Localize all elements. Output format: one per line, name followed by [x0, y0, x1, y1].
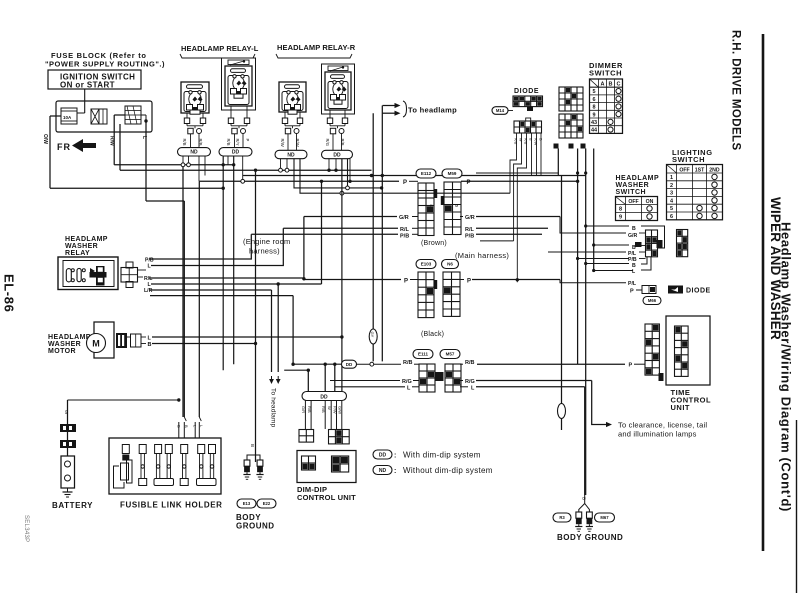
svg-text:ND: ND [190, 150, 198, 156]
svg-text:and illumination lamps: and illumination lamps [618, 430, 697, 439]
svg-text:M14: M14 [496, 108, 505, 113]
svg-text:(Brown): (Brown) [421, 240, 447, 247]
svg-text:(Black): (Black) [421, 331, 444, 338]
svg-text:R/B: R/B [307, 406, 312, 413]
svg-text:(Main harness): (Main harness) [455, 251, 509, 260]
svg-text:R/W: R/W [295, 139, 300, 147]
svg-text:BATTERY: BATTERY [52, 501, 93, 510]
svg-text::: : [394, 468, 397, 475]
svg-text:O/W: O/W [42, 134, 48, 144]
svg-text:FUSIBLE LINK HOLDER: FUSIBLE LINK HOLDER [120, 501, 223, 510]
svg-text:WASHER: WASHER [65, 243, 98, 250]
svg-text:B: B [582, 497, 587, 500]
svg-text:P: P [404, 279, 408, 285]
svg-text:R/B: R/B [340, 139, 345, 146]
svg-text:R/B: R/B [524, 138, 528, 145]
svg-text:DD: DD [346, 362, 353, 367]
svg-text:WASHER: WASHER [616, 182, 650, 189]
svg-text:DD: DD [379, 452, 387, 458]
svg-text:OFF: OFF [628, 199, 638, 205]
svg-text:P: P [403, 180, 407, 186]
svg-text:B: B [632, 226, 636, 232]
svg-text:E22: E22 [263, 501, 271, 506]
svg-text:R/Y: R/Y [235, 139, 240, 146]
svg-text:6: 6 [670, 214, 673, 220]
svg-text:SWITCH: SWITCH [616, 189, 647, 196]
svg-text:P/W: P/W [333, 406, 338, 414]
svg-text:ND: ND [379, 468, 387, 474]
svg-text:B: B [184, 425, 189, 428]
svg-text:C: C [617, 82, 621, 88]
svg-text:1: 1 [670, 175, 673, 181]
svg-text:ND: ND [287, 152, 295, 158]
svg-text:EL-86: EL-86 [2, 274, 17, 312]
svg-text:With dim-dip system: With dim-dip system [403, 451, 481, 460]
svg-text:CONTROL UNIT: CONTROL UNIT [297, 493, 356, 502]
svg-text:(Engine room: (Engine room [243, 237, 290, 246]
svg-text:MOTOR: MOTOR [48, 348, 76, 355]
svg-text:G/R: G/R [301, 406, 306, 413]
svg-text:DIODE: DIODE [514, 88, 539, 95]
svg-text:GY: GY [370, 332, 375, 338]
svg-text:To headlamp: To headlamp [408, 106, 457, 115]
svg-text:"POWER SUPPLY ROUTING".): "POWER SUPPLY ROUTING".) [45, 60, 165, 69]
svg-text:R/B: R/B [465, 360, 475, 366]
svg-text:R3: R3 [559, 515, 565, 520]
svg-text::: : [394, 453, 397, 460]
svg-text:UNIT: UNIT [671, 403, 691, 412]
svg-text:8: 8 [619, 207, 622, 213]
svg-text:W: W [327, 406, 332, 410]
svg-text:M57: M57 [446, 352, 455, 357]
svg-text:R/B: R/B [226, 139, 231, 146]
svg-text:43: 43 [591, 120, 597, 126]
svg-text:P/B: P/B [465, 234, 474, 240]
svg-text:R/G: R/G [325, 139, 330, 146]
svg-text:SEL343P: SEL343P [23, 515, 29, 542]
svg-text:G/R: G/R [399, 215, 409, 221]
svg-text:P/L: P/L [628, 281, 637, 287]
svg-text:R/W: R/W [280, 139, 285, 147]
svg-text:DD: DD [232, 150, 240, 156]
svg-text:R/L: R/L [400, 227, 410, 233]
svg-text:To headlamp: To headlamp [270, 388, 277, 428]
svg-text:R/G: R/G [465, 379, 475, 385]
svg-text:SWITCH: SWITCH [589, 69, 622, 78]
svg-text:ON: ON [646, 199, 654, 205]
svg-text:E111: E111 [418, 352, 429, 357]
svg-text:M66: M66 [648, 298, 657, 303]
svg-text:M59: M59 [448, 171, 457, 176]
svg-text:2ND: 2ND [709, 167, 720, 173]
svg-text:M: M [455, 203, 458, 208]
svg-text:P: P [630, 289, 634, 295]
svg-text:9: 9 [619, 215, 622, 221]
svg-text:R/B: R/B [182, 139, 187, 146]
svg-text:GROUND: GROUND [236, 522, 275, 531]
svg-text:HEADLAMP: HEADLAMP [65, 236, 108, 243]
svg-text:HEADLAMP: HEADLAMP [616, 175, 660, 182]
svg-text:WASHER: WASHER [48, 341, 81, 348]
svg-text:1ST: 1ST [695, 167, 705, 173]
svg-text:M67: M67 [600, 515, 609, 520]
svg-text:HEADLAMP RELAY-L: HEADLAMP RELAY-L [181, 44, 259, 53]
svg-text:2: 2 [670, 183, 673, 189]
svg-text:P: P [629, 363, 633, 369]
svg-text:DIODE: DIODE [686, 288, 711, 295]
svg-text:E: E [430, 203, 433, 208]
svg-text:OFF: OFF [679, 167, 689, 173]
svg-text:To clearance, license, tail: To clearance, license, tail [618, 421, 707, 430]
svg-text:P: P [245, 139, 250, 142]
svg-text:3: 3 [670, 191, 673, 197]
svg-text:W: W [519, 138, 523, 142]
svg-text:RELAY: RELAY [65, 250, 90, 257]
svg-text:G/R: G/R [628, 233, 637, 239]
svg-text:B: B [609, 82, 613, 88]
svg-text:DD: DD [333, 152, 341, 158]
svg-text:ON or START: ON or START [60, 81, 115, 90]
svg-text:9: 9 [592, 112, 595, 118]
svg-text:8: 8 [592, 105, 595, 111]
svg-text:A: A [601, 82, 605, 88]
svg-text:P: P [467, 279, 471, 285]
svg-text:L/R: L/R [144, 288, 153, 294]
svg-text:G/R: G/R [465, 215, 475, 221]
svg-text:E112: E112 [421, 171, 432, 176]
svg-text:FR: FR [57, 142, 71, 152]
svg-text:R/W: R/W [534, 138, 538, 146]
svg-text:R/G: R/G [402, 379, 412, 385]
svg-text:Without dim-dip system: Without dim-dip system [403, 466, 493, 475]
svg-text:R/B: R/B [321, 406, 326, 413]
svg-text:HEADLAMP: HEADLAMP [48, 334, 91, 341]
svg-text:E103: E103 [421, 262, 432, 267]
svg-text:5: 5 [592, 89, 595, 95]
svg-text:HEADLAMP RELAY-R: HEADLAMP RELAY-R [277, 43, 356, 52]
svg-text:R/L: R/L [465, 227, 475, 233]
svg-text:P: P [467, 180, 471, 186]
svg-text:B: B [250, 444, 255, 447]
svg-text:10A: 10A [63, 115, 72, 120]
svg-text:N6: N6 [447, 262, 453, 267]
svg-text:B: B [176, 425, 181, 428]
svg-text:M: M [92, 339, 100, 349]
svg-text:P/B: P/B [400, 234, 409, 240]
svg-text:R.H. DRIVE MODELS: R.H. DRIVE MODELS [730, 30, 742, 151]
svg-text:BODY GROUND: BODY GROUND [557, 533, 623, 542]
svg-text:R/B: R/B [514, 138, 518, 145]
svg-text:Headlamp Washer/Wiring Diagram: Headlamp Washer/Wiring Diagram (Cont'd) [779, 222, 794, 512]
svg-text:E13: E13 [243, 501, 251, 506]
svg-text:5: 5 [670, 206, 673, 212]
svg-text:SWITCH: SWITCH [672, 155, 705, 164]
svg-text:R/B: R/B [403, 360, 413, 366]
svg-text:44: 44 [591, 128, 598, 134]
svg-text:G/W: G/W [338, 406, 343, 414]
svg-text:harness): harness) [249, 247, 280, 256]
svg-text:B: B [148, 342, 152, 348]
svg-text:DD: DD [320, 394, 328, 400]
svg-text:R/B: R/B [198, 139, 203, 146]
svg-text:6: 6 [592, 97, 595, 103]
